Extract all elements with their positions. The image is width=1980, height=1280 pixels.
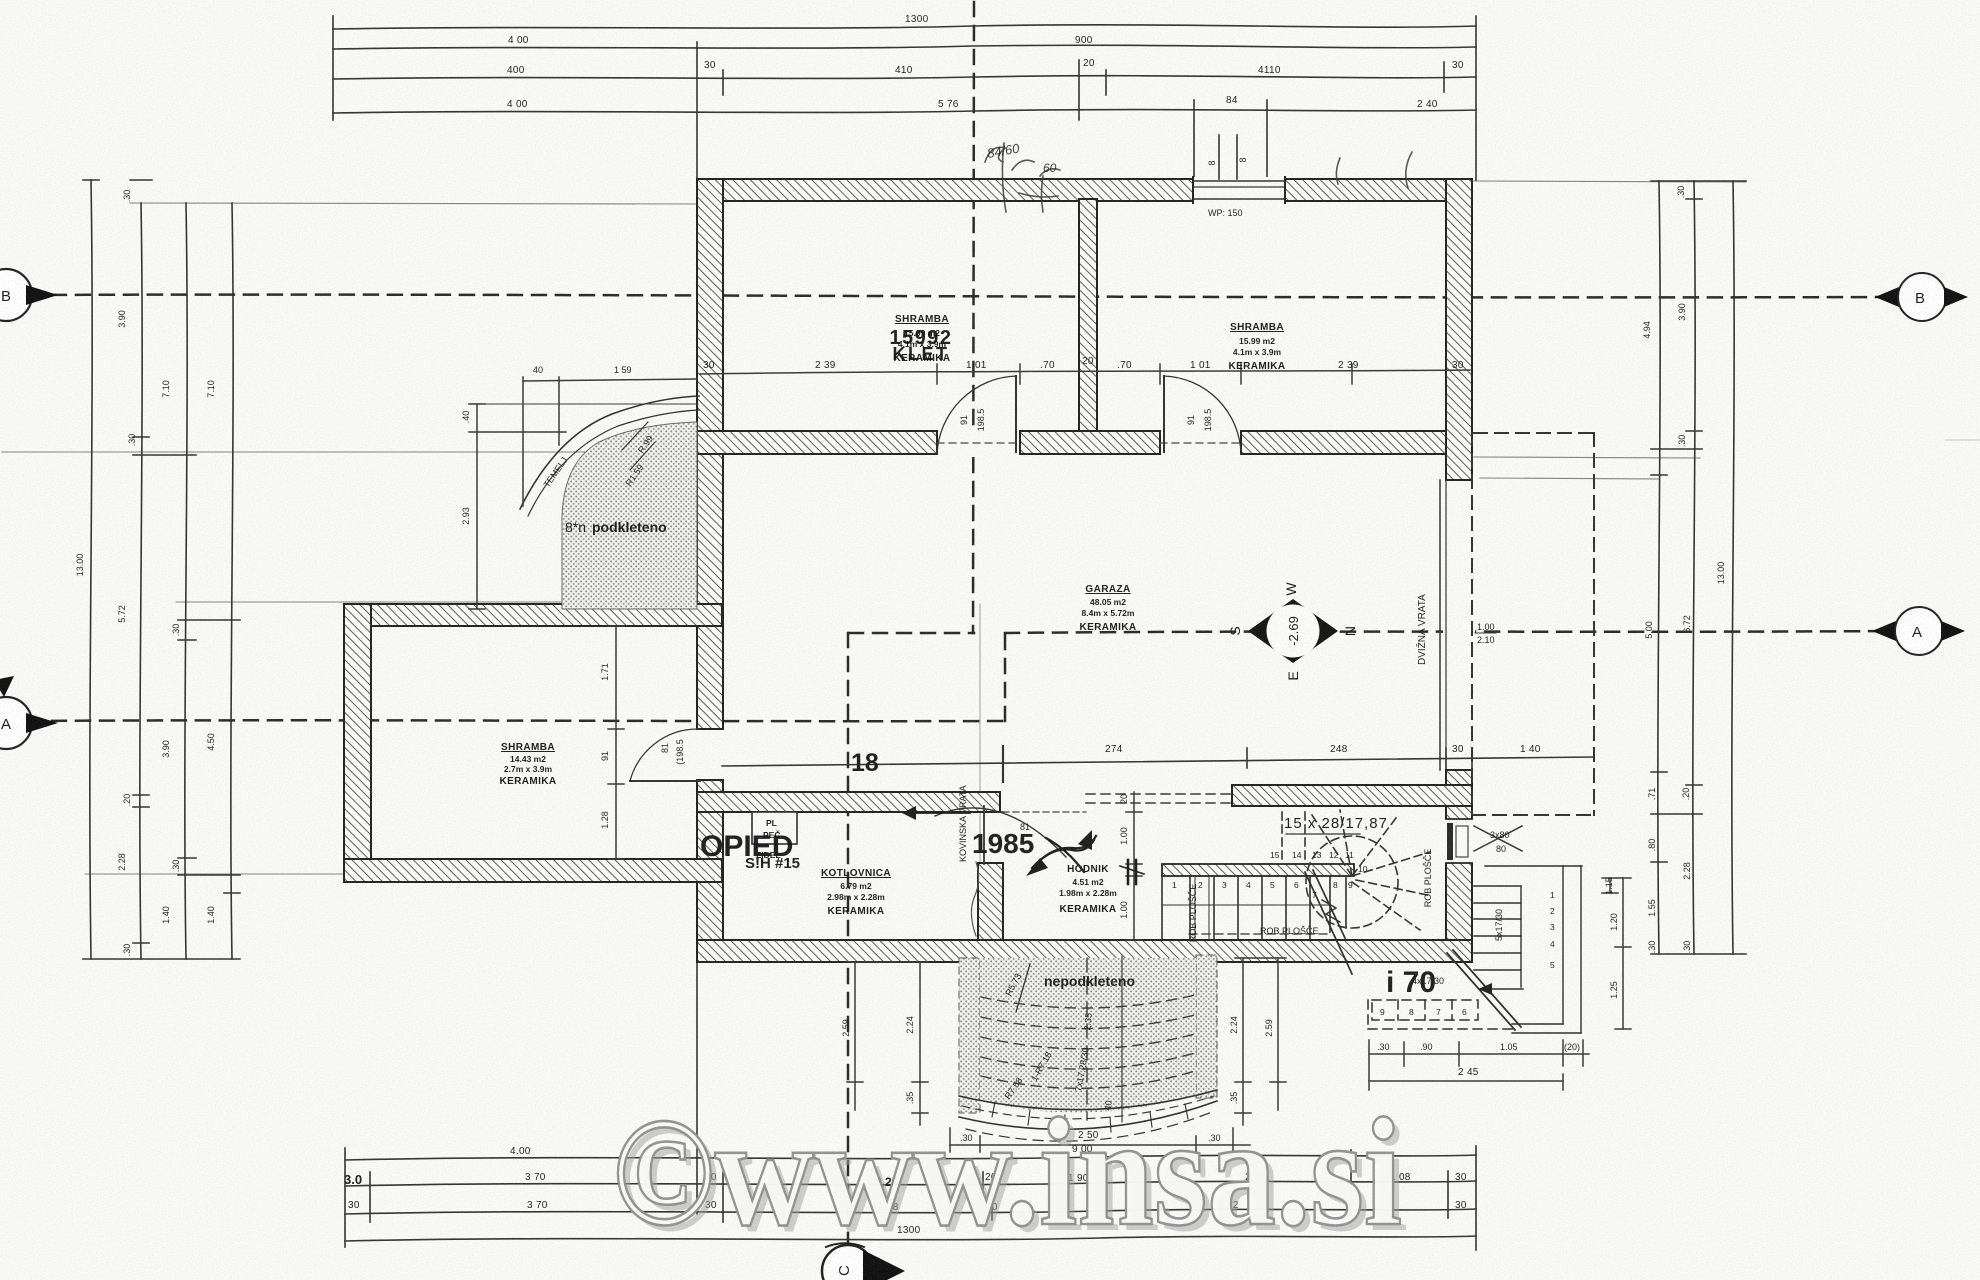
top dimension block bbox=[333, 16, 1476, 180]
faint extension lines bbox=[2, 181, 1980, 940]
basement window niche in right wall bbox=[1444, 819, 1474, 863]
bottom dimension block bbox=[345, 962, 1476, 1250]
room label bottom-left SHRAMBA bbox=[499, 742, 556, 787]
outdoor stair side dims bbox=[1602, 878, 1631, 1029]
watermark bbox=[612, 1086, 1408, 1264]
curved exterior stair stipple bands bbox=[959, 955, 1217, 1113]
middle wall between top rooms bbox=[1079, 199, 1097, 433]
pencil wavy line near hodnik wall bbox=[971, 862, 978, 936]
kotlovnica east wall bbox=[978, 812, 1003, 944]
room label top-left SHRAMBA/KLET bbox=[889, 314, 952, 364]
window WP150 in top wall bbox=[1193, 135, 1285, 218]
door leaf+arc right top room bbox=[1164, 376, 1241, 454]
hodnik interior dim line bbox=[1086, 792, 1232, 940]
handwritten scribbles top bbox=[985, 143, 1412, 212]
outdoor stairs dimensions bbox=[1369, 1040, 1589, 1090]
door opening bottom-left room (in left wall) bbox=[694, 729, 726, 780]
right wall piece lower bbox=[1446, 770, 1472, 953]
interior staircase steps bbox=[1162, 876, 1346, 939]
corridor bottom wall bbox=[697, 940, 1472, 962]
axis marker B right bbox=[1875, 273, 1968, 321]
axis marker A right bbox=[1872, 607, 1965, 655]
right dimension block bbox=[1651, 181, 1746, 954]
curved stair radial ticks bbox=[992, 1102, 1188, 1132]
axis C dashed line (top, jog, bottom) bbox=[848, 2, 974, 1247]
foundation stipple patch bbox=[562, 422, 697, 609]
stair landing edge bar bbox=[1162, 864, 1354, 876]
door opening right top room bbox=[1160, 428, 1241, 457]
curved stair labels bbox=[1003, 972, 1114, 1112]
PL PEC stove box bbox=[752, 812, 797, 844]
window dimension 3x80 bbox=[1474, 826, 1522, 854]
left dimension block bbox=[83, 180, 240, 959]
door leaf+arc left top room bbox=[937, 376, 1016, 454]
stair winder dashed lines bbox=[1282, 810, 1432, 930]
curved stair dimensions bbox=[847, 958, 1286, 1152]
foundation arcs TEMELJ bbox=[520, 396, 699, 516]
bottom-left room interior dim line bbox=[608, 626, 624, 859]
axis marker C bottom bbox=[822, 1243, 905, 1280]
axis marker A left bbox=[0, 676, 58, 749]
stair labels bbox=[1188, 815, 1433, 942]
door leaf+arc bottom-left room bbox=[630, 729, 700, 781]
axis A dashed line (left, jog, right) bbox=[28, 631, 1893, 721]
garage interior dimension line bbox=[722, 433, 1594, 815]
foundation dims bbox=[469, 377, 698, 609]
garage door label bbox=[1415, 594, 1496, 665]
stair cut diagonals bbox=[1305, 870, 1352, 974]
outdoor stairs right bbox=[1474, 866, 1582, 1033]
outdoor lower steps dashed bbox=[1368, 1000, 1512, 1029]
right wall upper bbox=[1446, 179, 1472, 480]
curved stair solid curbs bbox=[959, 956, 1217, 1141]
door opening left top room bbox=[937, 428, 1020, 457]
garage south wall right portion bbox=[1232, 785, 1472, 806]
garage door opening in right wall bbox=[1440, 480, 1475, 770]
bottom-left room walls (shramba) bbox=[344, 604, 722, 882]
overlay text podkleteno patch bbox=[565, 519, 667, 535]
axis marker B left bbox=[0, 269, 58, 321]
overlay text i70 bbox=[1386, 966, 1444, 999]
overlay text nepodkleteno bbox=[1044, 973, 1135, 989]
top wall bbox=[697, 179, 1472, 201]
room label top-right SHRAMBA bbox=[1228, 322, 1285, 372]
axis B dashed line bbox=[28, 295, 1895, 298]
left wall bbox=[697, 179, 723, 962]
top rooms interior dimension line bbox=[700, 364, 1470, 384]
stair direction arrow bbox=[1447, 950, 1523, 1030]
overlay text 1985 bbox=[958, 785, 1034, 862]
room label KOTLOVNICA bbox=[821, 868, 891, 917]
svg-text:©www.insa.si: ©www.insa.si bbox=[612, 1086, 1402, 1258]
room label HODNIK bbox=[1059, 864, 1117, 915]
kotlovnica north wall (garage south, left part) bbox=[697, 792, 1000, 812]
hodnik scribble arrows bbox=[902, 806, 1144, 884]
room label GARAZA bbox=[1079, 584, 1136, 633]
south wall of top rooms bbox=[697, 431, 1446, 454]
curved stair dashed steps bbox=[981, 995, 1195, 1088]
compass rose bbox=[1227, 582, 1358, 681]
overlay text OPIED SIH bbox=[700, 830, 800, 872]
door leaf+arc kotlovnica/hodnik bbox=[935, 806, 1086, 864]
